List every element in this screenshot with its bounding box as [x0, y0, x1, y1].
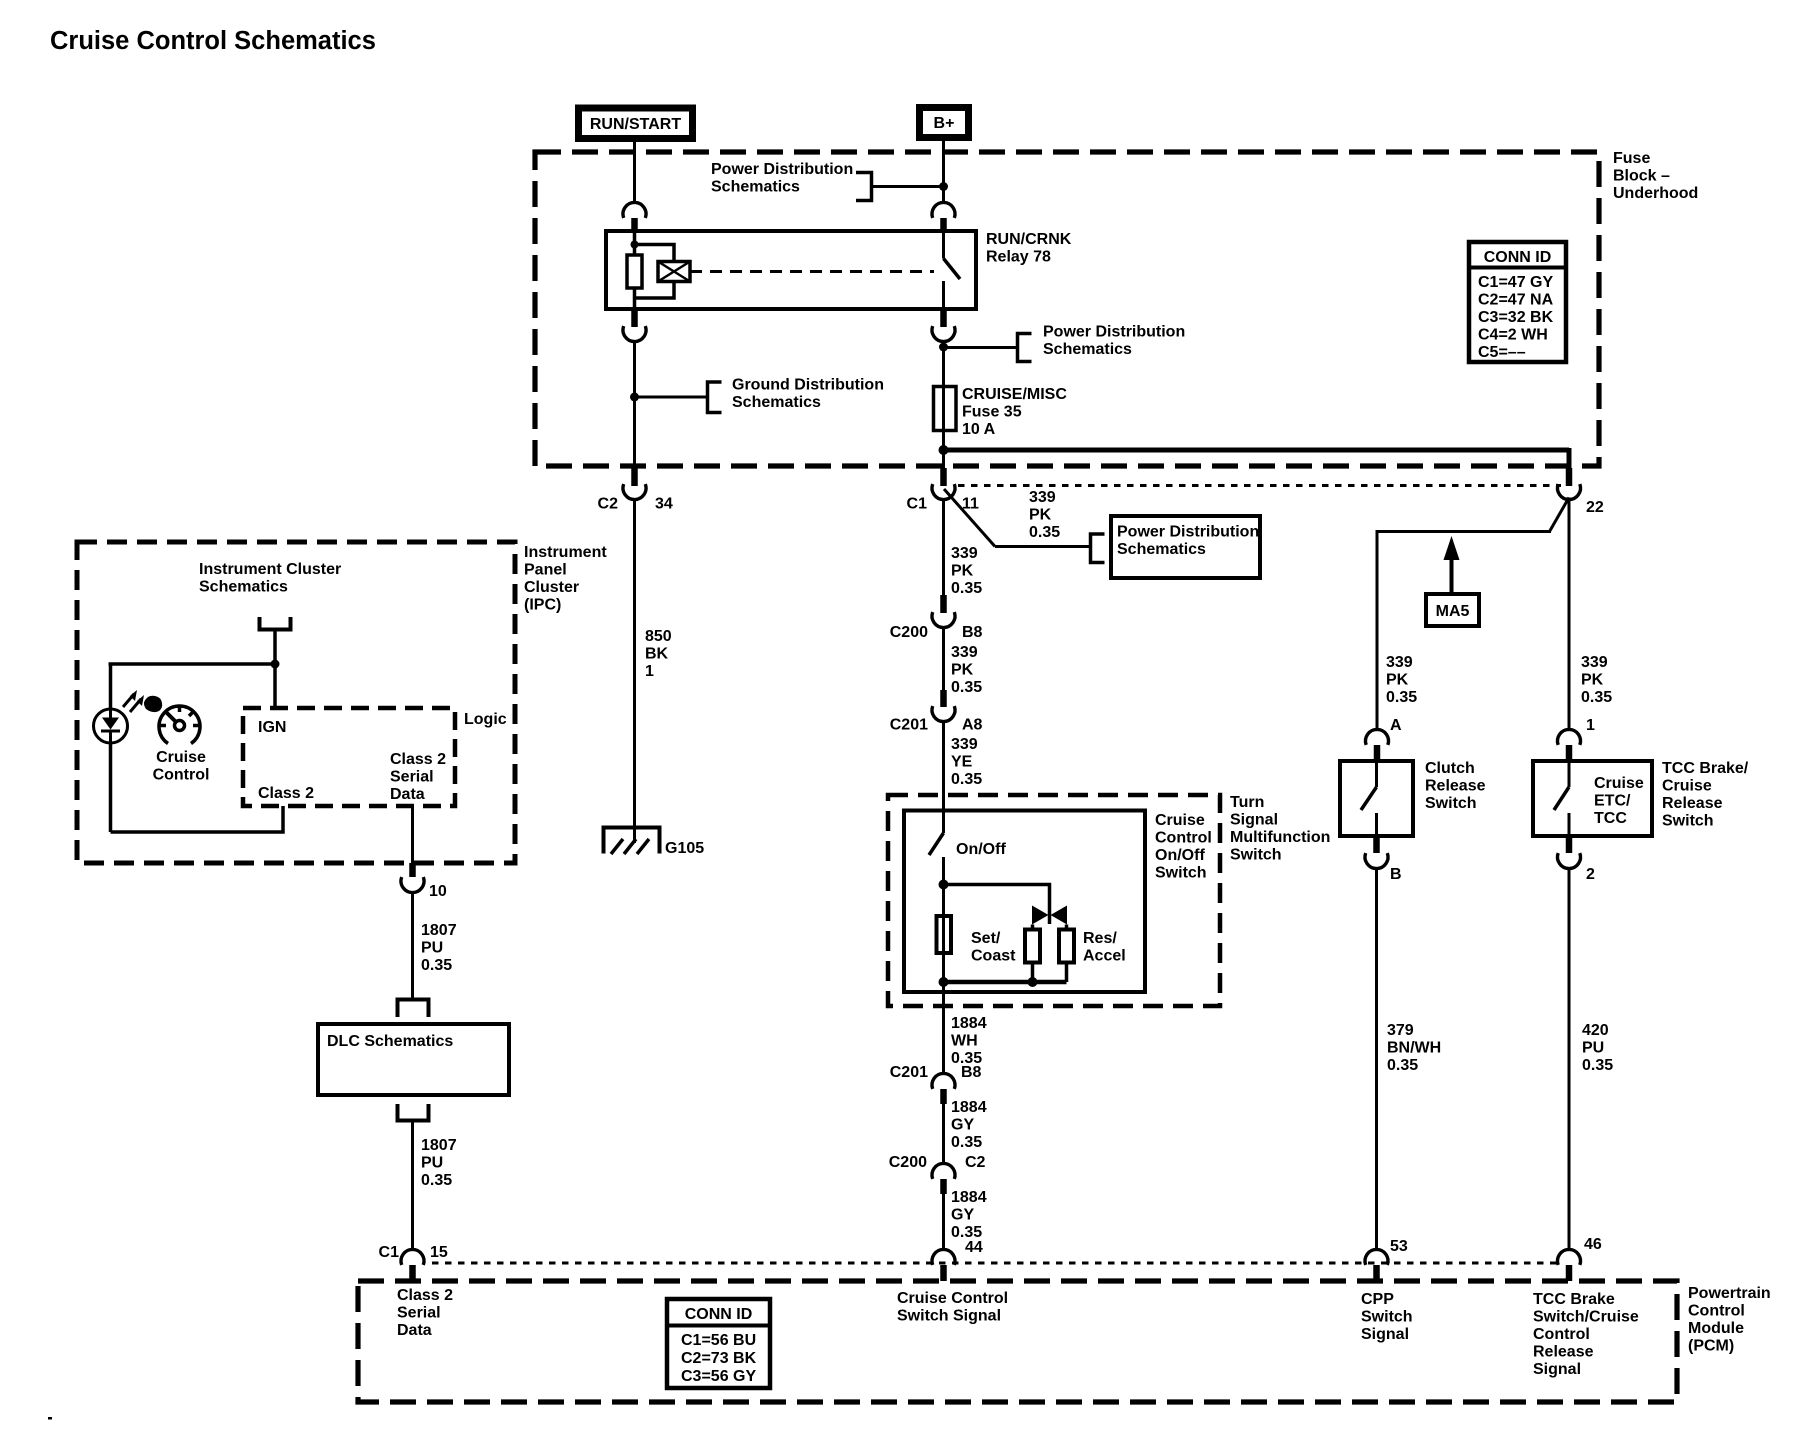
svg-text:C200: C200 — [890, 624, 928, 641]
svg-text:Signal: Signal — [1361, 1326, 1409, 1343]
svg-text:C3=56 GY: C3=56 GY — [681, 1368, 756, 1385]
svg-text:C1: C1 — [379, 1244, 400, 1261]
svg-text:10 A: 10 A — [962, 421, 996, 438]
svg-text:Cruise Control: Cruise Control — [897, 1290, 1008, 1307]
svg-text:Logic: Logic — [464, 711, 507, 728]
svg-text:0.35: 0.35 — [951, 580, 982, 597]
svg-text:Underhood: Underhood — [1613, 185, 1698, 202]
relay switch contact — [942, 233, 945, 259]
wire C1 to C200 — [942, 499, 945, 595]
reference box MA5 — [1426, 594, 1479, 626]
svg-text:Ground Distribution: Ground Distribution — [732, 377, 884, 394]
svg-text:2: 2 — [1586, 866, 1595, 883]
clutch release switch contact — [1375, 761, 1378, 787]
svg-text:A: A — [1390, 717, 1402, 734]
wire DLC to PCM — [411, 1121, 414, 1252]
reference MA5 arrow — [1444, 536, 1460, 560]
fuse CRUISE/MISC Fuse 35 10A — [942, 386, 945, 450]
svg-text:Block –: Block – — [1613, 168, 1670, 185]
svg-text:0.35: 0.35 — [951, 679, 982, 696]
wire IPC feed inside fuse block — [633, 340, 636, 468]
svg-text:Class 2: Class 2 — [258, 785, 314, 802]
CONN ID table (PCM) — [667, 1299, 770, 1388]
relay coil branch — [633, 231, 637, 309]
svg-text:Schematics: Schematics — [732, 394, 821, 411]
svg-text:TCC Brake: TCC Brake — [1533, 1291, 1615, 1308]
svg-text:GY: GY — [951, 1117, 974, 1134]
svg-text:1884: 1884 — [951, 1189, 987, 1206]
svg-text:(IPC): (IPC) — [524, 597, 561, 614]
svg-text:C2=47 NA: C2=47 NA — [1478, 292, 1554, 309]
wire pin 22 branch to clutch switch — [1550, 498, 1570, 532]
connector C1 pin 11 — [940, 468, 947, 486]
wire lamp branch — [109, 664, 113, 832]
svg-text:C5=––: C5=–– — [1478, 344, 1526, 361]
svg-text:0.35: 0.35 — [951, 771, 982, 788]
wire pin 22 to TCC switch — [1568, 498, 1571, 732]
wire B+ feed — [942, 141, 945, 204]
connector clutch pin B — [1373, 836, 1380, 853]
connector into fuse block (RUN/START) — [623, 202, 646, 217]
power feed box B+ — [920, 108, 969, 138]
svg-text:34: 34 — [655, 496, 673, 513]
connector out of relay (right) — [940, 310, 947, 327]
svg-text:Control: Control — [1155, 830, 1212, 847]
svg-text:Control: Control — [1688, 1303, 1745, 1320]
svg-text:TCC: TCC — [1594, 810, 1627, 827]
wire TCC to PCM pin 46 — [1568, 867, 1571, 1251]
svg-text:Serial: Serial — [397, 1305, 441, 1322]
svg-text:On/Off: On/Off — [956, 841, 1006, 858]
wire branch to res/accel diodes — [944, 885, 1050, 925]
node IGN branch — [271, 660, 280, 669]
clutch release switch box — [1340, 761, 1413, 836]
svg-text:Class 2: Class 2 — [397, 1287, 453, 1304]
wire to set/coast node — [942, 857, 945, 885]
svg-text:B+: B+ — [934, 115, 955, 132]
wire RUN/START feed — [633, 142, 636, 204]
svg-text:379: 379 — [1387, 1022, 1414, 1039]
svg-text:Switch Signal: Switch Signal — [897, 1308, 1001, 1325]
svg-text:0.35: 0.35 — [1386, 689, 1417, 706]
node ground distribution tap — [630, 393, 639, 402]
svg-text:Res/: Res/ — [1083, 930, 1117, 947]
connector C200 pin B8 — [940, 595, 947, 613]
svg-text:339: 339 — [1386, 654, 1413, 671]
svg-text:Schematics: Schematics — [711, 179, 800, 196]
node rail middle — [1028, 977, 1038, 987]
svg-text:339: 339 — [951, 736, 978, 753]
gauge icon — [159, 706, 200, 743]
svg-text:CONN ID: CONN ID — [685, 1306, 753, 1323]
LED cruise indicator — [94, 709, 128, 743]
svg-text:0.35: 0.35 — [1029, 524, 1060, 541]
svg-text:Instrument: Instrument — [524, 544, 607, 561]
node fused B+ tap — [942, 340, 945, 386]
svg-text:Instrument Cluster: Instrument Cluster — [199, 561, 341, 578]
DLC Schematics box — [318, 1024, 509, 1095]
diode res/accel left — [1032, 906, 1049, 925]
svg-text:Switch: Switch — [1155, 865, 1207, 882]
ground wire 850 BK — [633, 499, 636, 843]
reference Ground Distribution Schematics — [635, 396, 707, 399]
svg-text:15: 15 — [430, 1244, 448, 1261]
svg-text:Relay 78: Relay 78 — [986, 249, 1051, 266]
node switch output — [939, 880, 949, 890]
svg-text:RUN/START: RUN/START — [590, 116, 681, 133]
ground G105 symbol — [604, 828, 660, 854]
page artifact speck — [48, 1417, 52, 1420]
svg-text:Clutch: Clutch — [1425, 760, 1475, 777]
wire tap to B+ feed — [872, 185, 944, 188]
svg-text:PK: PK — [951, 662, 974, 679]
svg-text:Fuse: Fuse — [1613, 150, 1650, 167]
connector C201 pin A8 — [940, 690, 947, 707]
connector C200 pin C2 (return) — [932, 1163, 955, 1178]
diode res/accel right — [1051, 906, 1068, 925]
svg-text:C2: C2 — [965, 1154, 986, 1171]
svg-text:Control: Control — [1533, 1326, 1590, 1343]
svg-text:TCC Brake/: TCC Brake/ — [1662, 760, 1749, 777]
wire fused feed to C1 — [942, 450, 945, 468]
DLC in terminal symbol — [398, 1000, 429, 1018]
resistor res (left diode branch) — [1025, 930, 1040, 963]
relay box RUN/CRNK Relay 78 — [606, 231, 976, 309]
svg-text:A8: A8 — [962, 717, 983, 734]
svg-text:DLC Schematics: DLC Schematics — [327, 1033, 453, 1050]
connector C201 pin B8 (return) — [932, 1073, 955, 1088]
svg-text:Cruise: Cruise — [1155, 812, 1205, 829]
svg-text:PU: PU — [421, 940, 443, 957]
cruise control on/off switch box — [904, 811, 1145, 993]
svg-text:Switch: Switch — [1662, 813, 1714, 830]
wire class 2 serial data out — [411, 806, 414, 863]
svg-text:C201: C201 — [890, 1064, 928, 1081]
svg-text:1807: 1807 — [421, 922, 457, 939]
connector into fuse block (B+) — [932, 202, 955, 217]
svg-text:339: 339 — [951, 644, 978, 661]
svg-text:On/Off: On/Off — [1155, 847, 1205, 864]
svg-text:Switch/Cruise: Switch/Cruise — [1533, 1309, 1639, 1326]
svg-text:420: 420 — [1582, 1022, 1609, 1039]
svg-text:339: 339 — [1029, 489, 1056, 506]
instrument cluster dashed box — [77, 542, 515, 863]
svg-text:B8: B8 — [962, 624, 983, 641]
svg-text:Coast: Coast — [971, 948, 1016, 965]
svg-text:Switch: Switch — [1425, 795, 1477, 812]
wire lamp return to class 2 pin — [111, 806, 284, 832]
svg-text:Fuse 35: Fuse 35 — [962, 404, 1022, 421]
wire set/coast lower — [942, 885, 945, 983]
svg-text:PK: PK — [1029, 507, 1052, 524]
svg-text:BK: BK — [645, 646, 669, 663]
node rail left — [939, 977, 949, 987]
svg-text:850: 850 — [645, 628, 672, 645]
svg-text:C201: C201 — [890, 717, 928, 734]
svg-text:CRUISE/MISC: CRUISE/MISC — [962, 386, 1067, 403]
svg-text:Release: Release — [1662, 795, 1723, 812]
relay actuation dashed link — [690, 270, 934, 273]
TCC brake/cruise release switch box — [1533, 761, 1652, 836]
connector plane dotted line (top) — [958, 484, 1561, 487]
svg-text:Power Distribution: Power Distribution — [1043, 324, 1185, 341]
connector IPC pin 10 — [409, 863, 416, 877]
svg-text:Signal: Signal — [1533, 1361, 1581, 1378]
svg-text:Panel: Panel — [524, 562, 567, 579]
svg-text:YE: YE — [951, 754, 973, 771]
svg-text:22: 22 — [1586, 499, 1604, 516]
svg-text:ETC/: ETC/ — [1594, 793, 1631, 810]
connector C2 pin 34 — [631, 468, 638, 486]
reference Power Distribution Schematics (mid) — [944, 346, 1017, 349]
svg-text:Turn: Turn — [1230, 794, 1264, 811]
svg-text:0.35: 0.35 — [951, 1134, 982, 1151]
TCC switch contact — [1568, 761, 1571, 787]
gauge needle — [165, 711, 180, 726]
svg-text:1: 1 — [1586, 717, 1595, 734]
wire IGN branch — [109, 662, 276, 666]
svg-text:C1: C1 — [907, 496, 928, 513]
svg-text:Set/: Set/ — [971, 930, 1001, 947]
svg-text:Powertrain: Powertrain — [1688, 1285, 1771, 1302]
svg-text:Schematics: Schematics — [199, 579, 288, 596]
wire C200 to C201 — [942, 627, 945, 690]
IGN feed terminal symbol — [260, 617, 291, 630]
wire switch output down — [942, 982, 945, 1075]
svg-text:Cluster: Cluster — [524, 579, 579, 596]
svg-text:C2=73 BK: C2=73 BK — [681, 1350, 757, 1367]
logic dashed box — [243, 708, 455, 806]
svg-text:Accel: Accel — [1083, 948, 1126, 965]
svg-text:Multifunction: Multifunction — [1230, 829, 1330, 846]
svg-text:0.35: 0.35 — [421, 1172, 452, 1189]
svg-text:1884: 1884 — [951, 1015, 987, 1032]
svg-text:CPP: CPP — [1361, 1291, 1394, 1308]
svg-text:Data: Data — [397, 1322, 432, 1339]
svg-text:CONN ID: CONN ID — [1484, 249, 1552, 266]
svg-text:1807: 1807 — [421, 1137, 457, 1154]
svg-text:44: 44 — [965, 1239, 983, 1256]
svg-text:Release: Release — [1533, 1344, 1594, 1361]
wire to DLC — [411, 894, 414, 1000]
svg-text:C2: C2 — [598, 496, 619, 513]
svg-text:53: 53 — [1390, 1238, 1408, 1255]
svg-text:1884: 1884 — [951, 1099, 987, 1116]
svg-text:Cruise Control Schematics: Cruise Control Schematics — [50, 27, 376, 55]
svg-text:Switch: Switch — [1361, 1309, 1413, 1326]
svg-text:B8: B8 — [961, 1064, 982, 1081]
indicator blob icon — [144, 696, 162, 712]
svg-text:PU: PU — [1582, 1040, 1604, 1057]
svg-text:Release: Release — [1425, 778, 1486, 795]
svg-text:0.35: 0.35 — [1581, 689, 1612, 706]
svg-text:Schematics: Schematics — [1043, 341, 1132, 358]
svg-text:B: B — [1390, 866, 1402, 883]
connector out of relay (left) — [631, 310, 638, 327]
wire branch at C1 pin 11 — [944, 489, 995, 547]
bottom rail of switch network — [944, 980, 1067, 985]
DLC out terminal symbol — [398, 1104, 429, 1121]
svg-text:C4=2 WH: C4=2 WH — [1478, 327, 1548, 344]
svg-text:Cruise: Cruise — [1594, 775, 1644, 792]
resistor accel (right diode branch) — [1059, 930, 1074, 963]
relay coil winding symbol — [658, 262, 690, 282]
svg-text:Module: Module — [1688, 1320, 1744, 1337]
svg-text:46: 46 — [1584, 1236, 1602, 1253]
switch On/Off — [929, 833, 944, 855]
svg-text:Control: Control — [153, 767, 210, 784]
svg-text:PK: PK — [951, 563, 974, 580]
svg-text:BN/WH: BN/WH — [1387, 1040, 1441, 1057]
svg-text:Signal: Signal — [1230, 812, 1278, 829]
node B+ tap junction — [939, 182, 948, 191]
svg-text:Power Distribution: Power Distribution — [711, 161, 853, 178]
svg-text:PK: PK — [1386, 672, 1409, 689]
svg-text:Cruise: Cruise — [156, 749, 206, 766]
reference Power Distribution Schematics box — [995, 545, 1090, 548]
wire C201 to C200 (return) — [942, 1104, 945, 1165]
svg-text:0.35: 0.35 — [421, 957, 452, 974]
svg-text:0.35: 0.35 — [1387, 1057, 1418, 1074]
connector TCC pin 2 — [1566, 836, 1573, 853]
svg-text:IGN: IGN — [258, 719, 286, 736]
svg-text:0.35: 0.35 — [1582, 1057, 1613, 1074]
svg-text:Schematics: Schematics — [1117, 541, 1206, 558]
LED light rays — [123, 694, 134, 707]
svg-text:C200: C200 — [889, 1154, 927, 1171]
svg-text:339: 339 — [951, 545, 978, 562]
svg-text:Class 2: Class 2 — [390, 751, 446, 768]
svg-text:(PCM): (PCM) — [1688, 1338, 1734, 1355]
svg-text:C1=56 BU: C1=56 BU — [681, 1332, 756, 1349]
svg-text:C3=32 BK: C3=32 BK — [1478, 309, 1554, 326]
svg-text:1: 1 — [645, 663, 654, 680]
wire fused feed to pin 22 — [944, 448, 1570, 453]
powertrain control module dashed box — [358, 1281, 1677, 1402]
svg-text:RUN/CRNK: RUN/CRNK — [986, 231, 1072, 248]
wire clutch to PCM pin 53 — [1375, 867, 1378, 1251]
svg-text:WH: WH — [951, 1033, 978, 1050]
svg-text:Serial: Serial — [390, 769, 434, 786]
svg-text:C1=47 GY: C1=47 GY — [1478, 274, 1553, 291]
relay coil resistor — [627, 255, 642, 288]
wire C200 to PCM pin 44 — [942, 1194, 945, 1251]
wire C201 to on/off switch — [942, 721, 945, 833]
svg-text:PK: PK — [1581, 672, 1604, 689]
svg-text:Cruise: Cruise — [1662, 778, 1712, 795]
connector plane dotted line (PCM) — [432, 1262, 1561, 1265]
svg-text:G105: G105 — [665, 840, 704, 857]
turn signal multifunction switch dashed box — [888, 795, 1220, 1006]
CONN ID table (fuse block) — [1469, 242, 1566, 362]
svg-text:GY: GY — [951, 1207, 974, 1224]
connector pin 22 — [1566, 468, 1573, 486]
svg-text:Switch: Switch — [1230, 847, 1282, 864]
svg-text:MA5: MA5 — [1436, 603, 1470, 620]
svg-text:Data: Data — [390, 786, 425, 803]
resistor set/coast — [937, 916, 952, 953]
svg-text:Power Distribution: Power Distribution — [1117, 524, 1259, 541]
node below fuse — [939, 445, 949, 455]
svg-text:PU: PU — [421, 1155, 443, 1172]
power feed box RUN/START — [579, 108, 693, 139]
svg-text:10: 10 — [429, 883, 447, 900]
svg-text:339: 339 — [1581, 654, 1608, 671]
fuse block underhood dashed box — [535, 152, 1599, 466]
